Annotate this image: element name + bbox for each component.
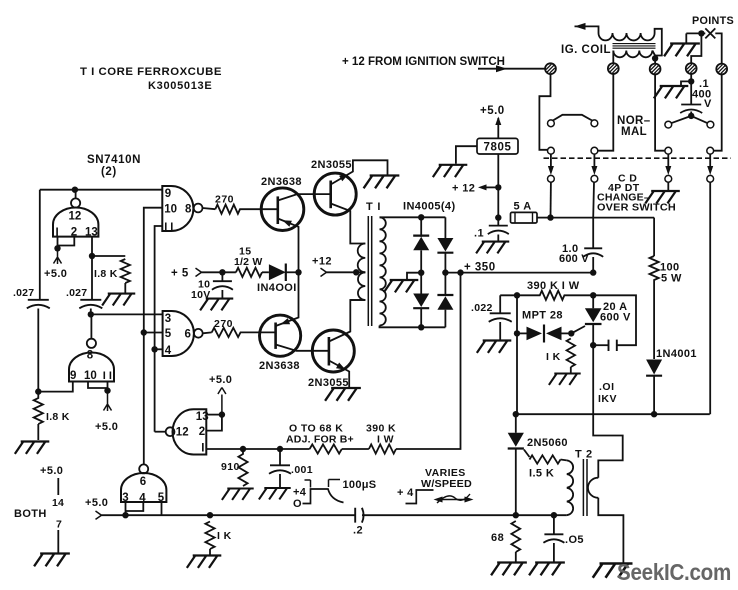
svg-text:6: 6 xyxy=(185,328,191,340)
wire regulator to +12 rail xyxy=(497,154,499,218)
svg-text:2: 2 xyxy=(199,426,205,438)
resistor 1K logic xyxy=(205,522,214,550)
svg-text:+5.0: +5.0 xyxy=(480,105,505,117)
junction Qbar to U1b pin4 xyxy=(151,346,157,352)
switch throw stem pole 1 xyxy=(550,154,552,166)
supply +5.0 at U2c xyxy=(218,388,226,415)
ground 10uF xyxy=(200,299,233,311)
svg-text:12: 12 xyxy=(176,427,189,439)
junction +12 tap xyxy=(495,184,501,190)
svg-text:4: 4 xyxy=(165,345,172,357)
wire feedback Qbar vertical xyxy=(155,226,163,432)
svg-text:I: I xyxy=(201,443,204,455)
wire between adj and 390K xyxy=(342,448,369,450)
ground bridge xyxy=(384,280,418,292)
svg-text:I K: I K xyxy=(217,530,232,542)
svg-text:(2): (2) xyxy=(101,166,117,178)
contact C4 xyxy=(707,175,714,182)
wire MPT left lead xyxy=(517,332,527,334)
Q2 collector lead xyxy=(331,204,366,244)
svg-text:OVER SWITCH: OVER SWITCH xyxy=(597,202,676,214)
capacitor .022 xyxy=(490,312,511,314)
wire coil right bracket xyxy=(655,29,662,64)
transistor Q2 2N3055 body xyxy=(314,173,356,215)
Q4 emitter lead xyxy=(329,361,349,388)
wire T4 to node xyxy=(690,74,692,104)
wire snubber bottom left xyxy=(593,344,608,346)
transistor Q3 2N3638 body xyxy=(260,315,301,356)
junction bridge right mid +350 xyxy=(442,269,448,275)
ground .022 xyxy=(477,341,511,353)
regulator 7805 box xyxy=(477,138,518,154)
transistor Q4 2N3055 body xyxy=(312,330,354,372)
wire T3 terminal to pole B3 xyxy=(655,75,665,151)
contact B3 xyxy=(665,147,672,154)
capacitor .1 regulator xyxy=(489,225,508,227)
wire +12 tap xyxy=(486,186,498,188)
NAND gate U1b body xyxy=(163,311,194,356)
wire 1.8K right ground stub xyxy=(124,283,126,293)
capacitor .027 left xyxy=(28,299,49,301)
contact A2 xyxy=(591,120,598,127)
wire 2N5060 gate xyxy=(524,450,530,458)
wire U2d pin4 xyxy=(126,502,144,511)
resistor 0-68K adj xyxy=(310,444,342,453)
wire pin13 to 1.8K right xyxy=(92,255,125,257)
wire coil secondary left lead xyxy=(612,51,614,64)
capacitor .05 xyxy=(544,533,563,535)
Q1 emitter lead xyxy=(278,219,299,273)
svg-text:BOTH: BOTH xyxy=(14,508,47,520)
wire U2a pin13 down xyxy=(91,237,93,300)
wire U2c pin13 xyxy=(207,414,222,416)
svg-text:+12: +12 xyxy=(312,256,332,268)
supply +5.0 at U2b xyxy=(104,391,112,411)
Q4 collector lead xyxy=(329,300,365,342)
waveform 100us pulse xyxy=(303,489,344,504)
wire node to U1b pin3 xyxy=(91,313,163,315)
wire bridge ground stub xyxy=(407,273,421,279)
wire 1.5K to T2 xyxy=(561,459,567,462)
points contact X xyxy=(705,28,715,38)
svg-text:I.8 K: I.8 K xyxy=(46,411,70,423)
wire B+ feedback vertical xyxy=(396,273,461,449)
ground 1K gate xyxy=(549,374,581,385)
switch throw arrow pole 4 xyxy=(707,166,713,175)
svg-text:I W: I W xyxy=(377,434,394,446)
svg-text:1N4001: 1N4001 xyxy=(656,348,697,360)
svg-text:7: 7 xyxy=(56,519,62,531)
svg-text:2N3638: 2N3638 xyxy=(261,176,302,188)
T1 core xyxy=(368,216,371,326)
wire points ground stem xyxy=(685,33,687,42)
switch gang dashed line xyxy=(544,157,732,159)
svg-text:5 W: 5 W xyxy=(661,273,682,285)
T1 secondary winding xyxy=(380,217,386,325)
contact B4 xyxy=(707,147,714,154)
Q4 emitter arrow xyxy=(336,363,346,370)
wire row to .001 xyxy=(243,448,280,450)
wire pin7 stub xyxy=(57,530,59,553)
ground pole C3 xyxy=(645,191,679,203)
svg-text:10V: 10V xyxy=(191,289,211,301)
terminal T3 coil plus xyxy=(650,64,661,75)
T2 core xyxy=(583,459,587,516)
wire SCR1 anode xyxy=(592,295,594,308)
resistor 1.8K left xyxy=(34,392,43,424)
svg-text:+5.0: +5.0 xyxy=(40,465,63,477)
wire C3 ground stem xyxy=(667,182,669,190)
svg-text:2N3055: 2N3055 xyxy=(311,159,352,171)
junction 1.8K left node xyxy=(35,388,41,394)
wire D3 to bottom xyxy=(420,308,422,327)
svg-text:600 V: 600 V xyxy=(600,312,631,324)
terminal T2 coil minus xyxy=(608,63,619,74)
input chevron U2d xyxy=(96,511,102,519)
wire U1a out xyxy=(203,208,216,209)
wire points to terminal T5 xyxy=(715,33,721,63)
diode D3 bridge xyxy=(413,294,429,308)
wire .022 ground stub xyxy=(499,322,501,340)
diode D1 bridge xyxy=(413,237,429,251)
NAND gate U1a output bubble xyxy=(194,204,203,213)
wire 1K ground stub scr xyxy=(570,367,572,373)
svg-text:910: 910 xyxy=(221,461,240,473)
NAND gate U1a body xyxy=(162,186,193,231)
wire SCR1 cathode xyxy=(592,324,594,345)
junction bridge left mid xyxy=(418,270,424,276)
arrowhead ignition feed xyxy=(496,65,507,72)
terminal T1 ignition input xyxy=(545,63,556,74)
svg-text:68: 68 xyxy=(491,532,504,544)
wire D1 to mid xyxy=(420,250,422,293)
svg-text:POINTS: POINTS xyxy=(692,15,734,27)
NAND gate U2a body xyxy=(53,208,98,237)
wire 390K row left xyxy=(500,294,517,296)
T1 primary upper xyxy=(358,244,366,273)
wire .1 cap ground stub xyxy=(497,235,499,241)
wire fuse right xyxy=(537,217,551,219)
svg-text:12: 12 xyxy=(69,211,82,223)
junction MPT right xyxy=(568,330,574,336)
svg-text:270: 270 xyxy=(215,194,234,206)
svg-text:8: 8 xyxy=(87,350,94,362)
junction 390K right xyxy=(590,292,596,298)
svg-text:7805: 7805 xyxy=(484,142,512,154)
junction MPT left xyxy=(514,330,520,336)
junction 910 tap xyxy=(240,446,246,452)
contact C1 xyxy=(548,175,555,182)
svg-text:390 K I W: 390 K I W xyxy=(527,280,580,292)
wire T1 secondary top xyxy=(380,216,446,218)
junction points line xyxy=(698,30,704,36)
svg-text:+5.0: +5.0 xyxy=(85,497,108,509)
junction fuse left xyxy=(495,214,501,220)
svg-text:.027: .027 xyxy=(66,287,87,299)
junction coil output xyxy=(652,55,658,61)
junction U2b output node xyxy=(88,311,94,317)
NAND gate U2a output bubble xyxy=(71,198,80,207)
svg-text:.1: .1 xyxy=(474,228,484,240)
contact A4 xyxy=(707,121,714,128)
wire +350 rail xyxy=(446,272,594,274)
NAND gate U2c output bubble xyxy=(166,427,175,436)
Q1 collector lead xyxy=(278,194,331,200)
junction condenser top xyxy=(688,78,694,84)
wire rail to T2 primary xyxy=(516,514,567,516)
svg-text:I I: I I xyxy=(164,221,173,233)
wire 10uF stub xyxy=(221,272,223,281)
input chevron +5 xyxy=(196,268,202,276)
wire snubber top xyxy=(593,295,636,345)
wire condenser ground stub xyxy=(681,81,691,85)
terminal T5 points side xyxy=(716,64,727,75)
Q3 collector lead xyxy=(276,345,329,351)
ground points line xyxy=(664,44,700,57)
wire T1 secondary bottom xyxy=(380,326,446,328)
wire CD feed corner to 100 ohm xyxy=(653,218,655,256)
junction U2a output node xyxy=(72,187,78,193)
capacitor .1 400V xyxy=(681,104,701,106)
svg-text:MAL: MAL xyxy=(621,126,647,138)
junction +350 SCR column xyxy=(590,269,596,275)
wire U2d pin3 xyxy=(125,502,127,515)
junction pin13 node xyxy=(89,253,95,259)
normal position bridge bar xyxy=(553,115,593,121)
svg-text:.001: .001 xyxy=(291,464,313,476)
junction B+ feedback tap xyxy=(457,269,463,275)
svg-text:I K: I K xyxy=(546,351,561,363)
wire MPT right lead xyxy=(562,332,572,334)
wire coil HT lead xyxy=(575,26,599,33)
wire left vertical .027 branch xyxy=(39,190,41,300)
contact A1 xyxy=(548,120,555,127)
arrowhead coil HT lead xyxy=(575,23,586,30)
junction drive rail xyxy=(295,269,301,275)
svg-text:IN4005(4): IN4005(4) xyxy=(403,201,456,213)
wire points line xyxy=(686,32,705,34)
wire gate lead SCR1 xyxy=(571,326,585,333)
svg-text:9: 9 xyxy=(70,370,76,382)
svg-text:8: 8 xyxy=(185,203,192,215)
resistor 390K 1W upper xyxy=(517,291,593,300)
fuse 5A xyxy=(511,212,538,223)
wire U2d input row xyxy=(102,514,356,516)
T2 secondary winding xyxy=(588,478,598,498)
junction 390K left xyxy=(514,292,520,298)
CD rail xyxy=(516,413,710,415)
svg-text:K3005013E: K3005013E xyxy=(148,80,212,92)
wire U2d pin5 xyxy=(161,502,163,515)
resistor 1.8K right xyxy=(121,259,130,283)
Q3 emitter arrow xyxy=(281,318,291,324)
wire D4 to bottom xyxy=(444,310,446,328)
wire .001 stub xyxy=(279,449,281,465)
svg-text:5 A: 5 A xyxy=(514,201,532,213)
wire U2c bubble stem xyxy=(155,431,166,433)
svg-text:W/SPEED: W/SPEED xyxy=(421,478,472,490)
svg-text:270: 270 xyxy=(214,318,233,330)
wire 1.0 cap to +350 xyxy=(592,257,594,273)
wire pin14 stub xyxy=(57,478,59,495)
wire row to 68K pot xyxy=(280,448,310,450)
junction rail left end xyxy=(513,411,519,417)
SCR 2N5060 xyxy=(508,433,524,447)
svg-text:T I CORE FERROXCUBE: T I CORE FERROXCUBE xyxy=(80,66,222,78)
ground 1.8K left xyxy=(15,442,49,454)
ground Q4 emitter xyxy=(325,388,361,401)
Q2 emitter arrow xyxy=(339,174,348,181)
wire U2a bubble stem xyxy=(75,190,77,199)
svg-text:IN4OOI: IN4OOI xyxy=(257,282,297,294)
input chevron +12 xyxy=(321,268,327,276)
diode D2 bridge xyxy=(437,238,453,252)
wire coil secondary right end xyxy=(652,51,655,56)
diode 1N4001 feed xyxy=(269,264,286,280)
ground .1 cap xyxy=(476,242,509,254)
resistor 390K 1W lower xyxy=(369,444,396,453)
switch throw arrow pole 3 xyxy=(665,166,671,175)
pole V left leg xyxy=(671,116,691,123)
wire T2 terminal to pole B2 xyxy=(598,74,614,151)
svg-text:ADJ. FOR B+: ADJ. FOR B+ xyxy=(286,434,354,446)
svg-text:+ 5: + 5 xyxy=(171,268,189,280)
svg-text:+5.0: +5.0 xyxy=(44,268,67,280)
wire logic rail to 68 xyxy=(362,514,516,516)
wire 2N5060 anode xyxy=(515,414,517,433)
ground .001 xyxy=(259,488,291,499)
wire ignition switch feed xyxy=(478,68,545,70)
wire SCR1 cathode to T2 secondary xyxy=(593,345,623,478)
switch throw stem pole 2 xyxy=(593,154,595,166)
svg-text:5: 5 xyxy=(165,328,172,340)
wire C4 down right side xyxy=(709,182,711,414)
junction .05 tap xyxy=(551,512,557,518)
ground 1.8K right xyxy=(102,294,135,306)
wire feedback Q vertical xyxy=(144,208,163,465)
svg-text:3: 3 xyxy=(165,313,171,325)
svg-text:6: 6 xyxy=(140,476,146,488)
wire +5 feed xyxy=(202,271,236,273)
svg-text:MPT 28: MPT 28 xyxy=(522,310,563,322)
wire U2b bubble stem xyxy=(90,314,92,338)
svg-text:100μS: 100μS xyxy=(343,479,377,491)
NAND gate U1b output bubble xyxy=(194,329,203,338)
wire U1b out xyxy=(203,331,212,334)
svg-text:.027: .027 xyxy=(13,287,34,299)
svg-text:T I: T I xyxy=(366,201,381,213)
ground Q2 emitter xyxy=(364,176,400,189)
junction pin11 node xyxy=(104,387,110,393)
wire D2 to mid xyxy=(444,253,446,295)
diode D4 bridge xyxy=(437,296,453,310)
ignition coil core xyxy=(613,44,656,49)
wire bridge left column top xyxy=(420,217,422,237)
resistor 270 upper xyxy=(215,205,261,214)
wire U2a pin1 xyxy=(57,237,59,249)
diode 1N4001 right xyxy=(646,360,662,375)
wire 1.8K left ground stub xyxy=(37,424,39,440)
wire bridge right column xyxy=(444,217,446,238)
svg-text:9: 9 xyxy=(165,188,171,200)
wire fuse node to CD feed xyxy=(551,217,655,219)
terminal T4 condenser side xyxy=(686,63,697,74)
wire T2 secondary bottom xyxy=(598,498,623,563)
junction .001 tap xyxy=(277,446,283,452)
ground .05 xyxy=(529,563,565,576)
T1 primary lower xyxy=(358,272,365,300)
wire U2a pin2 xyxy=(58,237,75,246)
wire 1K ground stub xyxy=(209,549,211,555)
wire U2c pin2 xyxy=(207,415,222,431)
Q3 emitter lead xyxy=(276,272,299,326)
wire 68 ground stub xyxy=(515,552,517,562)
switch throw stem pole 4 xyxy=(709,154,711,166)
ground 1K logic xyxy=(187,556,221,568)
wire diode to rail xyxy=(653,376,655,415)
wire .027 right to node xyxy=(90,309,92,315)
ground regulator xyxy=(433,165,467,177)
wire diode to rail xyxy=(286,271,299,273)
ground 910 xyxy=(222,489,254,500)
wire .05 stub xyxy=(553,515,555,534)
contact B2 xyxy=(591,147,598,154)
svg-text:SeekIC.com: SeekIC.com xyxy=(617,559,731,585)
svg-text:I.8 K: I.8 K xyxy=(94,268,118,280)
wire 2N5060 cathode xyxy=(515,449,517,516)
wire T1 terminal to pole B1 xyxy=(539,74,550,150)
wire regulator output xyxy=(497,118,499,138)
wire dot to terminal T4 xyxy=(691,33,701,62)
junction pole V apex xyxy=(688,113,694,119)
svg-text:.OI: .OI xyxy=(599,381,615,393)
svg-text:2N3638: 2N3638 xyxy=(259,360,300,372)
svg-text:IKV: IKV xyxy=(598,393,617,405)
junction U2c supply node xyxy=(219,411,225,417)
svg-text:14: 14 xyxy=(52,497,64,509)
wire regulator ground lead xyxy=(456,146,477,164)
transistor Q3 base bar xyxy=(274,323,277,349)
varies arrow right xyxy=(465,497,474,503)
ground pin7 xyxy=(34,554,70,567)
wire pin9 top rail xyxy=(40,189,162,191)
switch throw arrow pole 2 xyxy=(591,166,597,175)
svg-text:SN7410N: SN7410N xyxy=(87,154,141,166)
resistor 68 xyxy=(511,521,520,552)
junction U2d pin3 xyxy=(122,512,128,518)
wire U1b pin5 xyxy=(144,332,163,334)
wire U1b pin4 xyxy=(155,348,163,350)
pole V right leg xyxy=(691,116,707,123)
NAND gate U2d output bubble xyxy=(139,464,148,473)
wire Q3 base lead xyxy=(260,331,276,333)
svg-text:.022: .022 xyxy=(471,302,493,314)
transistor Q2 base bar xyxy=(329,181,332,209)
ignition coil secondary winding xyxy=(613,51,652,58)
Q2 emitter lead xyxy=(331,160,388,184)
transistor Q4 base bar xyxy=(328,337,331,366)
svg-text:+ 12: + 12 xyxy=(452,183,475,195)
capacitor 10uF 10V xyxy=(213,280,232,282)
capacitor 1.0 600V xyxy=(584,247,602,249)
wire T1 primary bottom to Q4 xyxy=(350,299,365,301)
wire U2b pin9 xyxy=(38,382,73,392)
svg-text:1/2 W: 1/2 W xyxy=(234,256,262,268)
varies squiggle xyxy=(437,494,470,503)
svg-text:T 2: T 2 xyxy=(575,449,593,461)
svg-text:O: O xyxy=(293,498,302,510)
svg-text:IG. COIL: IG. COIL xyxy=(561,44,611,56)
